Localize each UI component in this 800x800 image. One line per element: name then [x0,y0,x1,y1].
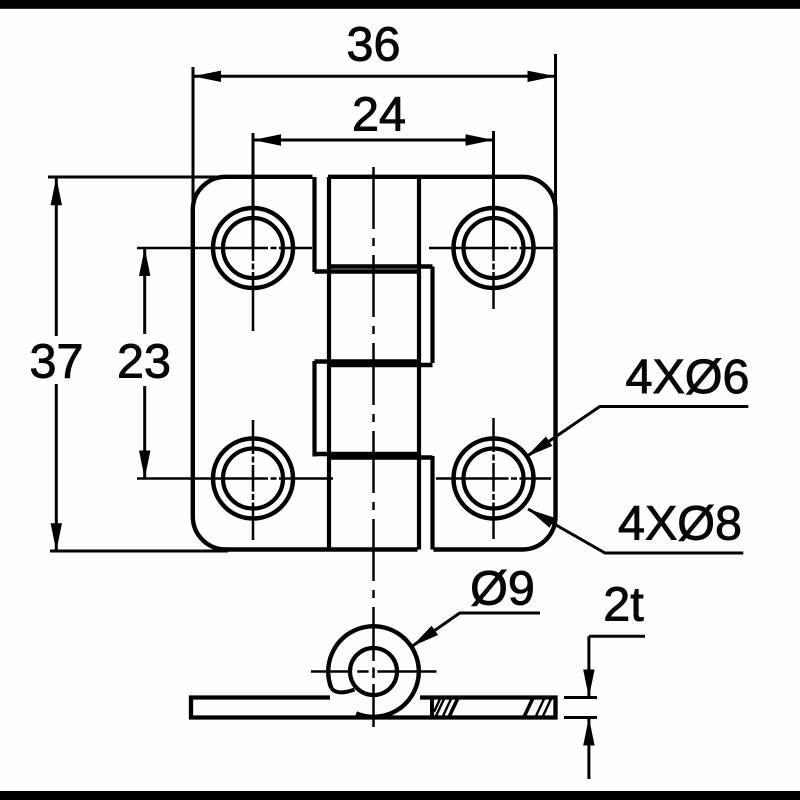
svg-text:36: 36 [347,18,401,72]
dimension 36 left extension line [192,67,195,213]
hole top-right outer circle [454,208,534,288]
svg-text:24: 24 [352,88,406,142]
svg-text:4XØ6: 4XØ6 [625,350,749,404]
centerline vertical hole top-right [492,248,495,309]
dimension 24 right extension line [492,131,495,248]
bottom edge gap (leaf slot) [418,544,434,556]
hatch patch A thick diagonal [449,698,458,717]
dimension 37 line lower segment [55,384,58,551]
left leaf cut edge segment 1 [312,177,316,272]
svg-text:4XØ8: 4XØ8 [618,497,742,551]
leader 4xD8 arrow [528,509,555,528]
hinge axis centerline [372,167,375,727]
dimension 2t upper leg [587,636,590,697]
centerline horizontal hole bottom-left [137,477,333,480]
side view knuckle inner circle [350,648,397,695]
right leaf cut edge segment 4 [430,456,434,550]
side view horizontal crosshair [311,670,437,673]
knuckle left edge (full height) [327,177,331,550]
hole bottom-right inner circle [464,449,524,509]
dimension 36 line [193,75,556,78]
knuckle boundary 2 lower line [329,363,433,368]
dimension 2t bottom extension line [564,716,597,719]
dimension 23 bottom arrow [139,451,150,479]
side view knuckle roll hook arc [331,688,354,692]
dimension 23 line lower segment [143,386,146,479]
dimension 24 left extension line [252,133,255,248]
side view bar divider [430,698,434,718]
hole bottom-left outer circle [213,439,293,519]
dimension 37 bottom arrow [51,523,62,551]
dimension 2t upper arrow [583,670,594,698]
side view leaf bar outline [191,698,556,718]
centerline vertical hole bottom-right [492,418,495,539]
right leaf cut edge segment 2 [430,267,434,364]
leader D9 arrow [412,626,438,647]
dimension 24 line [253,139,494,142]
side view knuckle outer spiral arc [328,626,419,717]
dimension 23 line upper segment [143,248,146,334]
leader 4xD6 polyline [526,407,748,458]
dimension 2t lower leg [587,718,590,780]
dimension 36 left arrow [193,71,221,82]
hole bottom-left inner circle [223,449,283,509]
hatch patch B thin lines [536,699,551,716]
hole top-left inner circle [223,218,283,278]
knuckle boundary 2 upper line [315,359,421,364]
svg-text:Ø9: Ø9 [470,562,535,616]
hole top-left outer circle [213,208,293,288]
dimension 36 right arrow [528,71,556,82]
knuckle boundary 1 lower line [315,269,421,274]
centerline horizontal hole top-right [429,247,553,250]
dimension 37 line upper segment [55,177,58,336]
centerline vertical hole bottom-left [252,420,255,540]
knuckle boundary 3 upper line [315,452,421,457]
knuckle right edge (full height) [417,177,421,550]
dimension 23 top arrow [139,248,150,276]
svg-text:23: 23 [117,335,171,389]
leader D9 polyline [412,613,540,646]
dimension 37 bottom extension line [50,550,228,553]
knuckle boundary 1 upper line [329,264,433,269]
dimension 37 top extension line [48,176,228,179]
left leaf cut edge segment 3 [312,361,316,457]
svg-text:2t: 2t [603,578,644,632]
hole top-right inner circle [464,218,524,278]
hatch patch B thick diagonal [524,698,533,717]
dimension 36 right extension line [554,54,557,213]
hatch patch A thin lines [434,699,451,716]
dimension 24 left arrow [253,134,281,145]
centerline horizontal hole top-left [137,247,312,250]
bottom black band [0,791,800,800]
knuckle boundary 3 lower line [329,455,433,460]
top edge gap (leaf slot) [313,171,329,183]
dimension 24 right arrow [466,134,494,145]
svg-text:37: 37 [30,335,84,389]
centerline horizontal hole bottom-right [436,477,551,480]
dimension 2t top extension line [564,696,597,699]
leader 4xD6 arrow [526,437,552,458]
hinge plate outline (front view) [193,177,556,550]
centerline vertical hole top-left [252,248,255,331]
dimension 2t lower arrow [583,718,594,746]
dimension 37 top arrow [51,177,62,205]
hole bottom-right outer circle [454,439,534,519]
dimension 2t shelf [589,635,645,638]
leader 4xD8 polyline [528,509,743,553]
top black band [0,0,800,9]
